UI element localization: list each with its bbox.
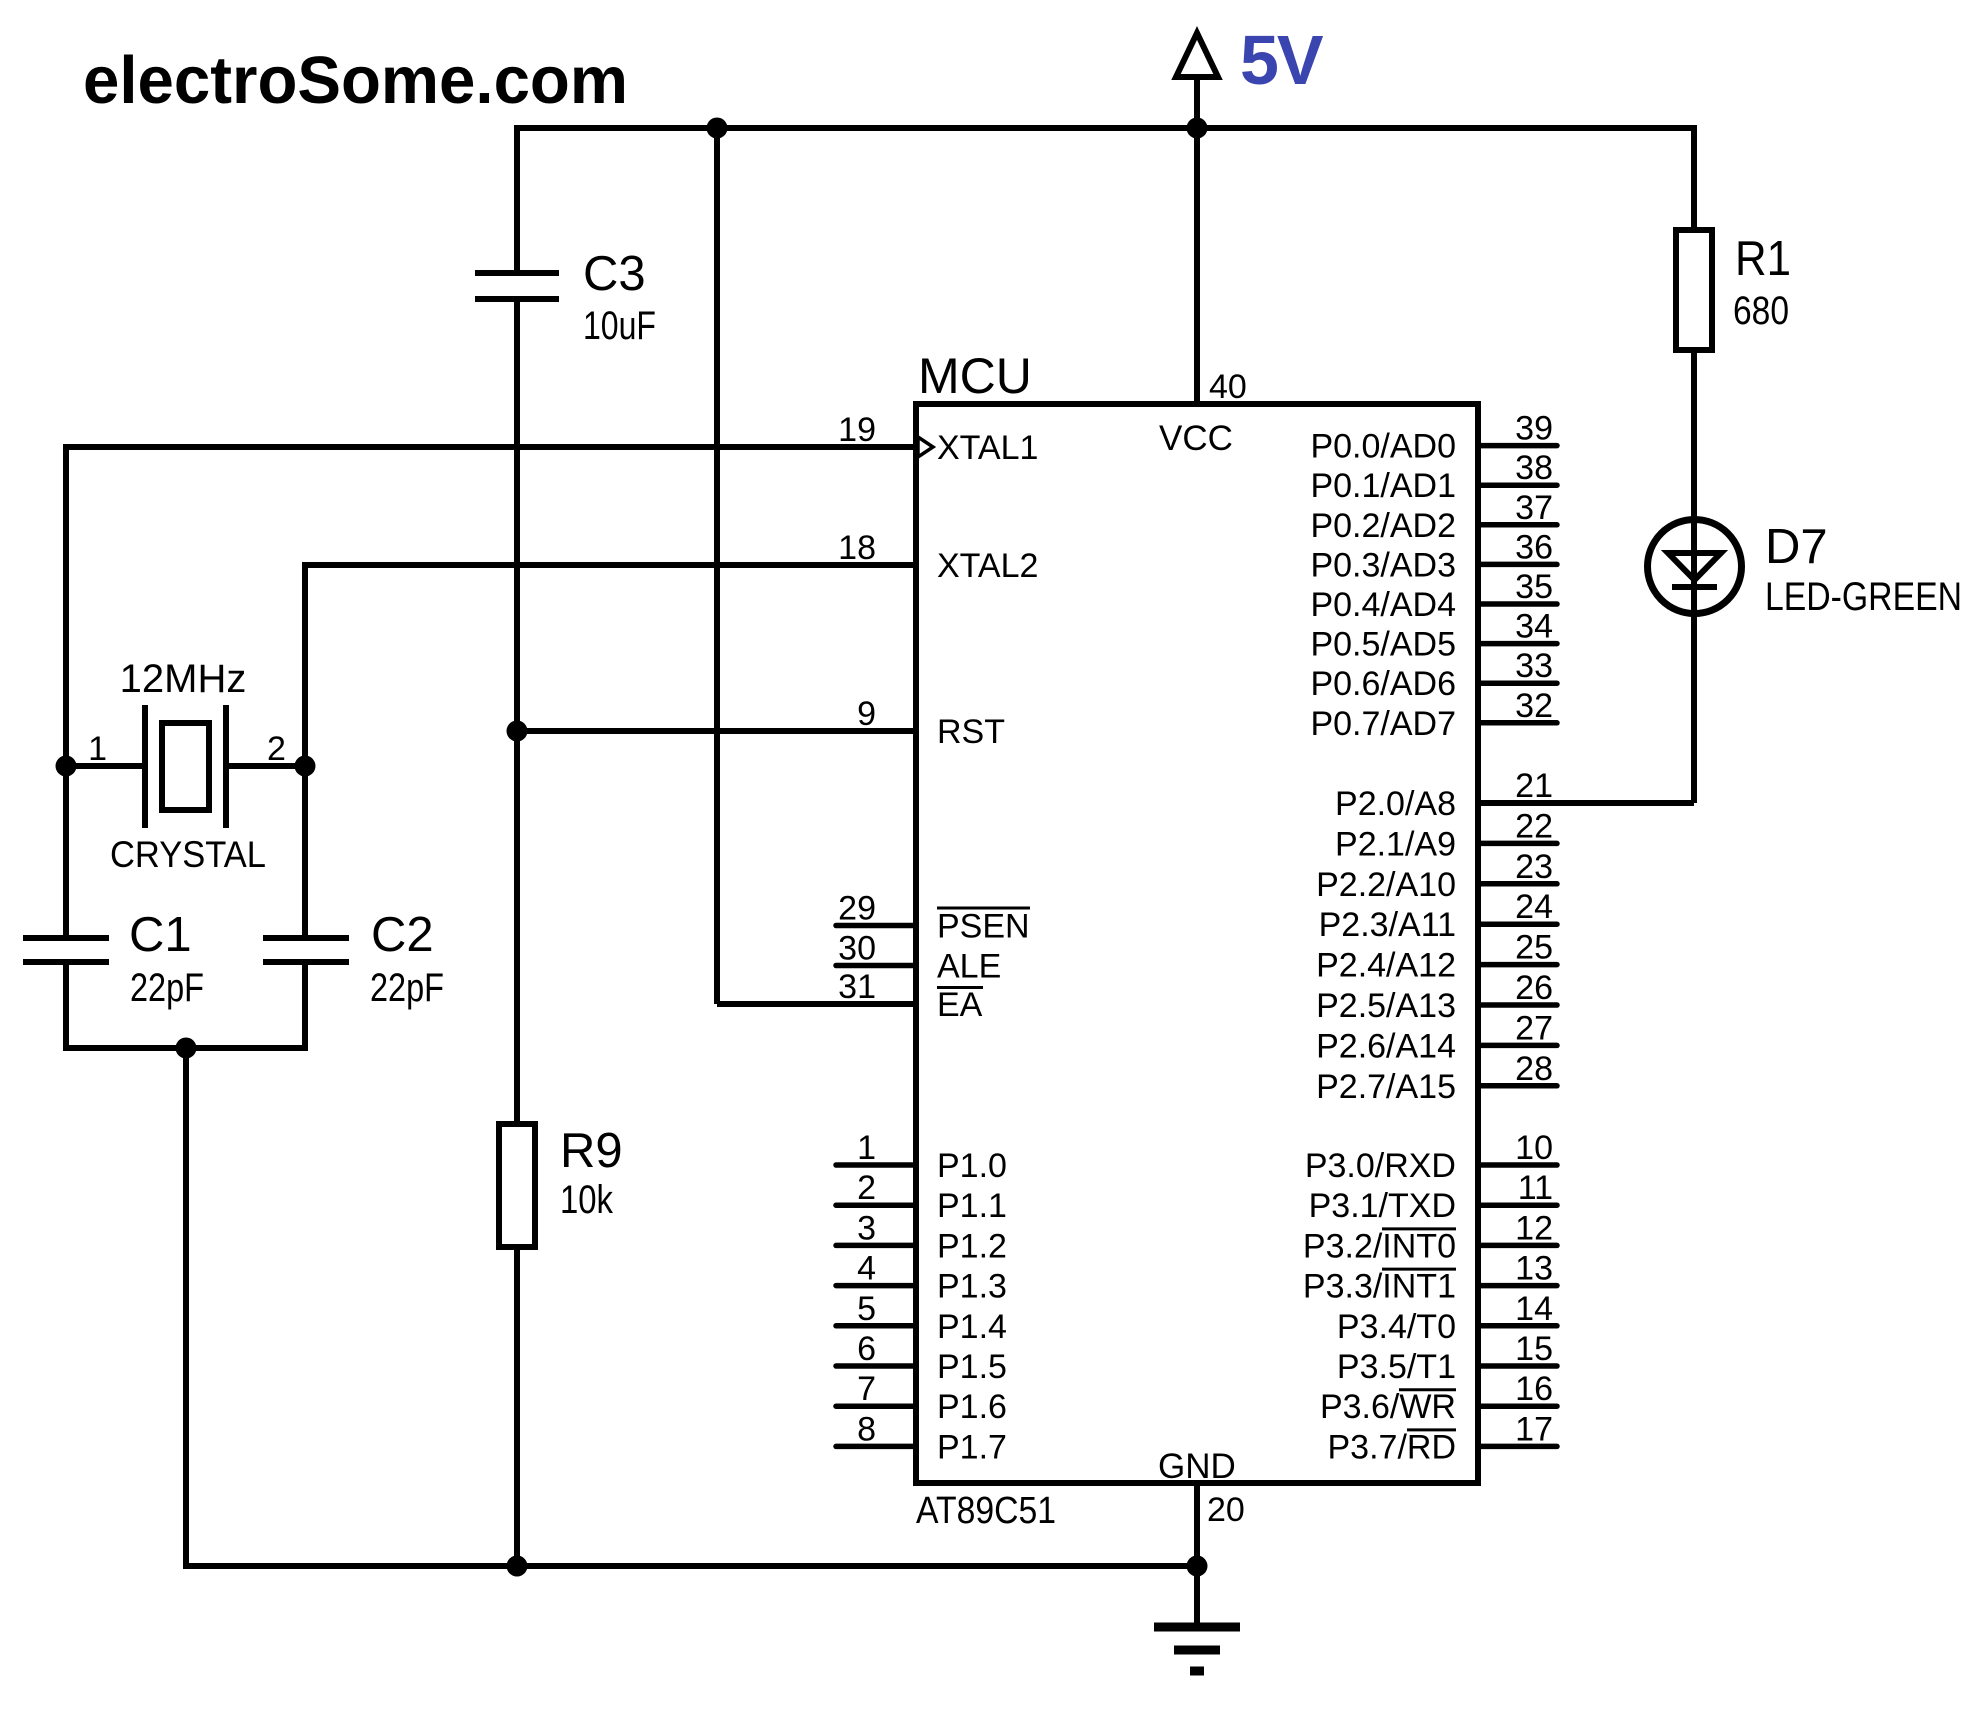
pin 17 P3.7/RD [1478, 1444, 1557, 1450]
svg-text:22: 22 [1515, 807, 1553, 845]
ground symbol bars [1154, 1623, 1240, 1632]
pin 26 P2.5/A13 [1478, 1002, 1557, 1008]
svg-text:2: 2 [267, 730, 286, 768]
svg-text:P0.2/AD2: P0.2/AD2 [1310, 507, 1456, 545]
node: 5V junction [1187, 118, 1208, 139]
svg-text:P2.0/A8: P2.0/A8 [1335, 785, 1456, 823]
svg-text:5: 5 [857, 1290, 876, 1328]
svg-text:680: 680 [1733, 289, 1789, 333]
svg-text:P3.7/RD: P3.7/RD [1328, 1428, 1457, 1466]
svg-text:1: 1 [88, 730, 107, 768]
pin 33 P0.6/AD6 [1478, 680, 1557, 686]
pin 7 P1.6 [836, 1403, 916, 1409]
svg-text:7: 7 [857, 1370, 876, 1408]
wire: XTAL2 pin 18 row [305, 562, 916, 568]
svg-text:P0.7/AD7: P0.7/AD7 [1310, 705, 1456, 743]
svg-text:29: 29 [838, 890, 876, 928]
wire: right crystal vertical down to C2 [302, 562, 308, 938]
svg-text:electroSome.com: electroSome.com [83, 43, 628, 118]
svg-text:P3.2/INT0: P3.2/INT0 [1303, 1227, 1456, 1265]
svg-text:17: 17 [1515, 1410, 1553, 1448]
pin 23 P2.2/A10 [1478, 881, 1557, 887]
svg-text:C2: C2 [371, 908, 434, 962]
pin 30 ALE [836, 963, 916, 969]
svg-text:PSEN: PSEN [937, 908, 1030, 946]
svg-text:P2.3/A11: P2.3/A11 [1319, 906, 1456, 944]
svg-text:6: 6 [857, 1330, 876, 1368]
svg-text:R9: R9 [560, 1124, 623, 1178]
svg-text:XTAL1: XTAL1 [937, 429, 1038, 467]
svg-text:28: 28 [1515, 1050, 1553, 1088]
svg-text:D7: D7 [1765, 520, 1828, 574]
pin 2 P1.1 [836, 1202, 916, 1208]
svg-text:P1.7: P1.7 [937, 1428, 1007, 1466]
pin 35 P0.4/AD4 [1478, 601, 1557, 607]
svg-text:2: 2 [857, 1169, 876, 1207]
pin 14 P3.4/T0 [1478, 1323, 1557, 1329]
svg-text:ALE: ALE [937, 948, 1001, 986]
wire: capacitor bottoms join [63, 1045, 308, 1051]
svg-text:P0.3/AD3: P0.3/AD3 [1310, 546, 1456, 584]
LED D7 circle [1648, 520, 1742, 614]
svg-text:P1.4: P1.4 [937, 1308, 1007, 1346]
ground symbol stem [1194, 1566, 1200, 1623]
wire: C3 bottom down to R9 (through RST node) [514, 299, 520, 1124]
svg-text:P1.2: P1.2 [937, 1227, 1007, 1265]
svg-text:24: 24 [1515, 888, 1553, 926]
node: crystal ground junction [176, 1038, 197, 1059]
wire: R1 branch from rail [1691, 125, 1697, 230]
wire: crystal pin 2 lead [226, 763, 305, 769]
pin 11 P3.1/TXD [1478, 1202, 1557, 1208]
svg-text:4: 4 [857, 1250, 876, 1288]
svg-text:40: 40 [1209, 368, 1247, 406]
power symbol 5V arrow head [1176, 33, 1218, 77]
pin 27 P2.6/A14 [1478, 1043, 1557, 1049]
svg-text:EA: EA [937, 986, 983, 1024]
svg-text:12MHz: 12MHz [120, 657, 247, 701]
wire: RST pin 9 row [517, 728, 916, 734]
svg-text:25: 25 [1515, 929, 1553, 967]
svg-text:22pF: 22pF [370, 966, 444, 1010]
svg-text:P2.1/A9: P2.1/A9 [1335, 825, 1456, 863]
LED D7 cathode bar [1672, 584, 1717, 590]
wire: R1 to LED and down to pin 21 row [1691, 350, 1697, 803]
svg-text:P2.5/A13: P2.5/A13 [1316, 987, 1456, 1025]
node: GND pin junction [1187, 1556, 1208, 1577]
svg-text:27: 27 [1515, 1009, 1553, 1047]
svg-text:26: 26 [1515, 969, 1553, 1007]
pin 6 P1.5 [836, 1363, 916, 1369]
svg-text:C3: C3 [583, 247, 646, 301]
node: XTAL1 net junction [56, 756, 77, 777]
node: XTAL2 net junction [295, 756, 316, 777]
svg-text:P0.5/AD5: P0.5/AD5 [1310, 626, 1456, 664]
resistor R9 body [499, 1124, 535, 1247]
svg-text:39: 39 [1515, 410, 1553, 448]
svg-text:RST: RST [937, 713, 1005, 751]
svg-text:P2.6/A14: P2.6/A14 [1316, 1027, 1456, 1065]
node: R9 ground junction [507, 1556, 528, 1577]
svg-text:8: 8 [857, 1410, 876, 1448]
XTAL1 clock-input arrow [918, 437, 933, 457]
pin 16 P3.6/WR [1478, 1403, 1557, 1409]
svg-text:32: 32 [1515, 687, 1553, 725]
svg-text:P2.7/A15: P2.7/A15 [1316, 1068, 1456, 1106]
wire: C3 top drop from rail [514, 125, 520, 273]
svg-text:10: 10 [1515, 1129, 1553, 1167]
svg-text:XTAL2: XTAL2 [937, 547, 1038, 585]
svg-text:10k: 10k [560, 1178, 614, 1222]
wire: R9 bottom to ground rail [514, 1247, 520, 1566]
svg-text:22pF: 22pF [130, 966, 204, 1010]
svg-text:16: 16 [1515, 1370, 1553, 1408]
wire: left vertical down to C1 [63, 444, 69, 938]
pin 36 P0.3/AD3 [1478, 562, 1557, 568]
wire: crystal pin 1 lead [66, 763, 145, 769]
wire: XTAL1 pin 19 row [66, 444, 916, 450]
pin 22 P2.1/A9 [1478, 841, 1557, 847]
node: RST junction [507, 721, 528, 742]
svg-text:P2.4/A12: P2.4/A12 [1316, 947, 1456, 985]
wire: ground rail [186, 1563, 1197, 1569]
pin 32 P0.7/AD7 [1478, 720, 1557, 726]
pin 1 P1.0 [836, 1162, 916, 1168]
svg-text:P1.0: P1.0 [937, 1147, 1007, 1185]
pin 3 P1.2 [836, 1243, 916, 1249]
svg-text:P0.0/AD0: P0.0/AD0 [1310, 428, 1456, 466]
svg-text:10uF: 10uF [583, 304, 656, 348]
svg-text:VCC: VCC [1159, 419, 1233, 458]
svg-text:P2.2/A10: P2.2/A10 [1316, 866, 1456, 904]
svg-text:33: 33 [1515, 647, 1553, 685]
svg-text:P3.0/RXD: P3.0/RXD [1305, 1147, 1456, 1185]
wire: GND pin 20 drop [1194, 1483, 1200, 1566]
svg-text:P1.3: P1.3 [937, 1268, 1007, 1306]
node: EA top junction [707, 118, 728, 139]
pin 37 P0.2/AD2 [1478, 522, 1557, 528]
wire: EA pin 31 row [717, 1001, 916, 1007]
wire: VCC pin 40 drop [1194, 128, 1200, 404]
pin 13 P3.3/INT1 [1478, 1283, 1557, 1289]
svg-text:30: 30 [838, 930, 876, 968]
wire: EA drop from top rail [714, 128, 720, 1004]
svg-text:AT89C51: AT89C51 [916, 1490, 1056, 1532]
svg-text:P1.6: P1.6 [937, 1388, 1007, 1426]
wire: crystal net down to ground rail [183, 1048, 189, 1569]
pin 15 P3.5/T1 [1478, 1363, 1557, 1369]
wire: C1 bottom lead [63, 962, 69, 1051]
svg-text:CRYSTAL: CRYSTAL [110, 834, 266, 875]
svg-text:21: 21 [1515, 767, 1553, 805]
svg-text:P3.4/T0: P3.4/T0 [1337, 1308, 1456, 1346]
svg-text:9: 9 [857, 695, 876, 733]
svg-text:P1.1: P1.1 [937, 1187, 1007, 1225]
svg-text:P3.3/INT1: P3.3/INT1 [1303, 1268, 1456, 1306]
resistor R1 body [1676, 230, 1712, 350]
svg-text:P3.5/T1: P3.5/T1 [1337, 1348, 1456, 1386]
wire: P2.0 pin 21 row [1478, 800, 1694, 806]
wire: top VCC rail [517, 125, 1694, 131]
svg-text:P0.4/AD4: P0.4/AD4 [1310, 586, 1456, 624]
pin 29 PSEN [836, 923, 916, 929]
svg-text:R1: R1 [1735, 232, 1791, 286]
svg-text:MCU: MCU [918, 348, 1032, 404]
pin 28 P2.7/A15 [1478, 1083, 1557, 1089]
svg-text:14: 14 [1515, 1290, 1553, 1328]
svg-text:13: 13 [1515, 1250, 1553, 1288]
capacitor C3 plates [475, 270, 559, 276]
pin 25 P2.4/A12 [1478, 962, 1557, 968]
pin 12 P3.2/INT0 [1478, 1243, 1557, 1249]
svg-text:19: 19 [838, 411, 876, 449]
pin 4 P1.3 [836, 1283, 916, 1289]
pin 38 P0.1/AD1 [1478, 482, 1557, 488]
crystal X1 electrodes [142, 705, 148, 828]
svg-text:11: 11 [1518, 1169, 1553, 1207]
pin 8 P1.7 [836, 1444, 916, 1450]
LED D7 triangle [1668, 553, 1721, 580]
svg-text:20: 20 [1207, 1491, 1245, 1529]
svg-text:31: 31 [838, 968, 876, 1006]
svg-text:P0.6/AD6: P0.6/AD6 [1310, 665, 1456, 703]
svg-text:18: 18 [838, 529, 876, 567]
svg-text:5V: 5V [1240, 21, 1324, 99]
svg-text:GND: GND [1158, 1447, 1236, 1486]
svg-text:P1.5: P1.5 [937, 1348, 1007, 1386]
svg-text:23: 23 [1515, 848, 1553, 886]
pin 34 P0.5/AD5 [1478, 641, 1557, 647]
pin 39 P0.0/AD0 [1478, 443, 1557, 449]
svg-text:15: 15 [1515, 1330, 1553, 1368]
svg-text:C1: C1 [129, 908, 192, 962]
wire: C2 bottom lead [302, 962, 308, 1051]
pin 5 P1.4 [836, 1323, 916, 1329]
power symbol 5V arrow stem [1194, 36, 1200, 128]
pin 10 P3.0/RXD [1478, 1162, 1557, 1168]
MCU U1 AT89C51 body [916, 404, 1478, 1483]
svg-text:P0.1/AD1: P0.1/AD1 [1310, 467, 1456, 505]
svg-text:3: 3 [857, 1209, 876, 1247]
svg-text:P3.6/WR: P3.6/WR [1320, 1388, 1456, 1426]
capacitor C2 plates [263, 935, 349, 941]
svg-text:12: 12 [1515, 1209, 1553, 1247]
svg-text:36: 36 [1515, 528, 1553, 566]
svg-text:38: 38 [1515, 449, 1553, 487]
svg-text:35: 35 [1515, 568, 1553, 606]
pin 24 P2.3/A11 [1478, 921, 1557, 927]
svg-text:1: 1 [857, 1129, 876, 1167]
svg-text:P3.1/TXD: P3.1/TXD [1309, 1187, 1456, 1225]
svg-text:LED-GREEN: LED-GREEN [1765, 575, 1962, 619]
svg-text:34: 34 [1515, 608, 1553, 646]
capacitor C1 plates [23, 935, 109, 941]
crystal X1 body [162, 723, 209, 810]
svg-text:37: 37 [1515, 489, 1553, 527]
